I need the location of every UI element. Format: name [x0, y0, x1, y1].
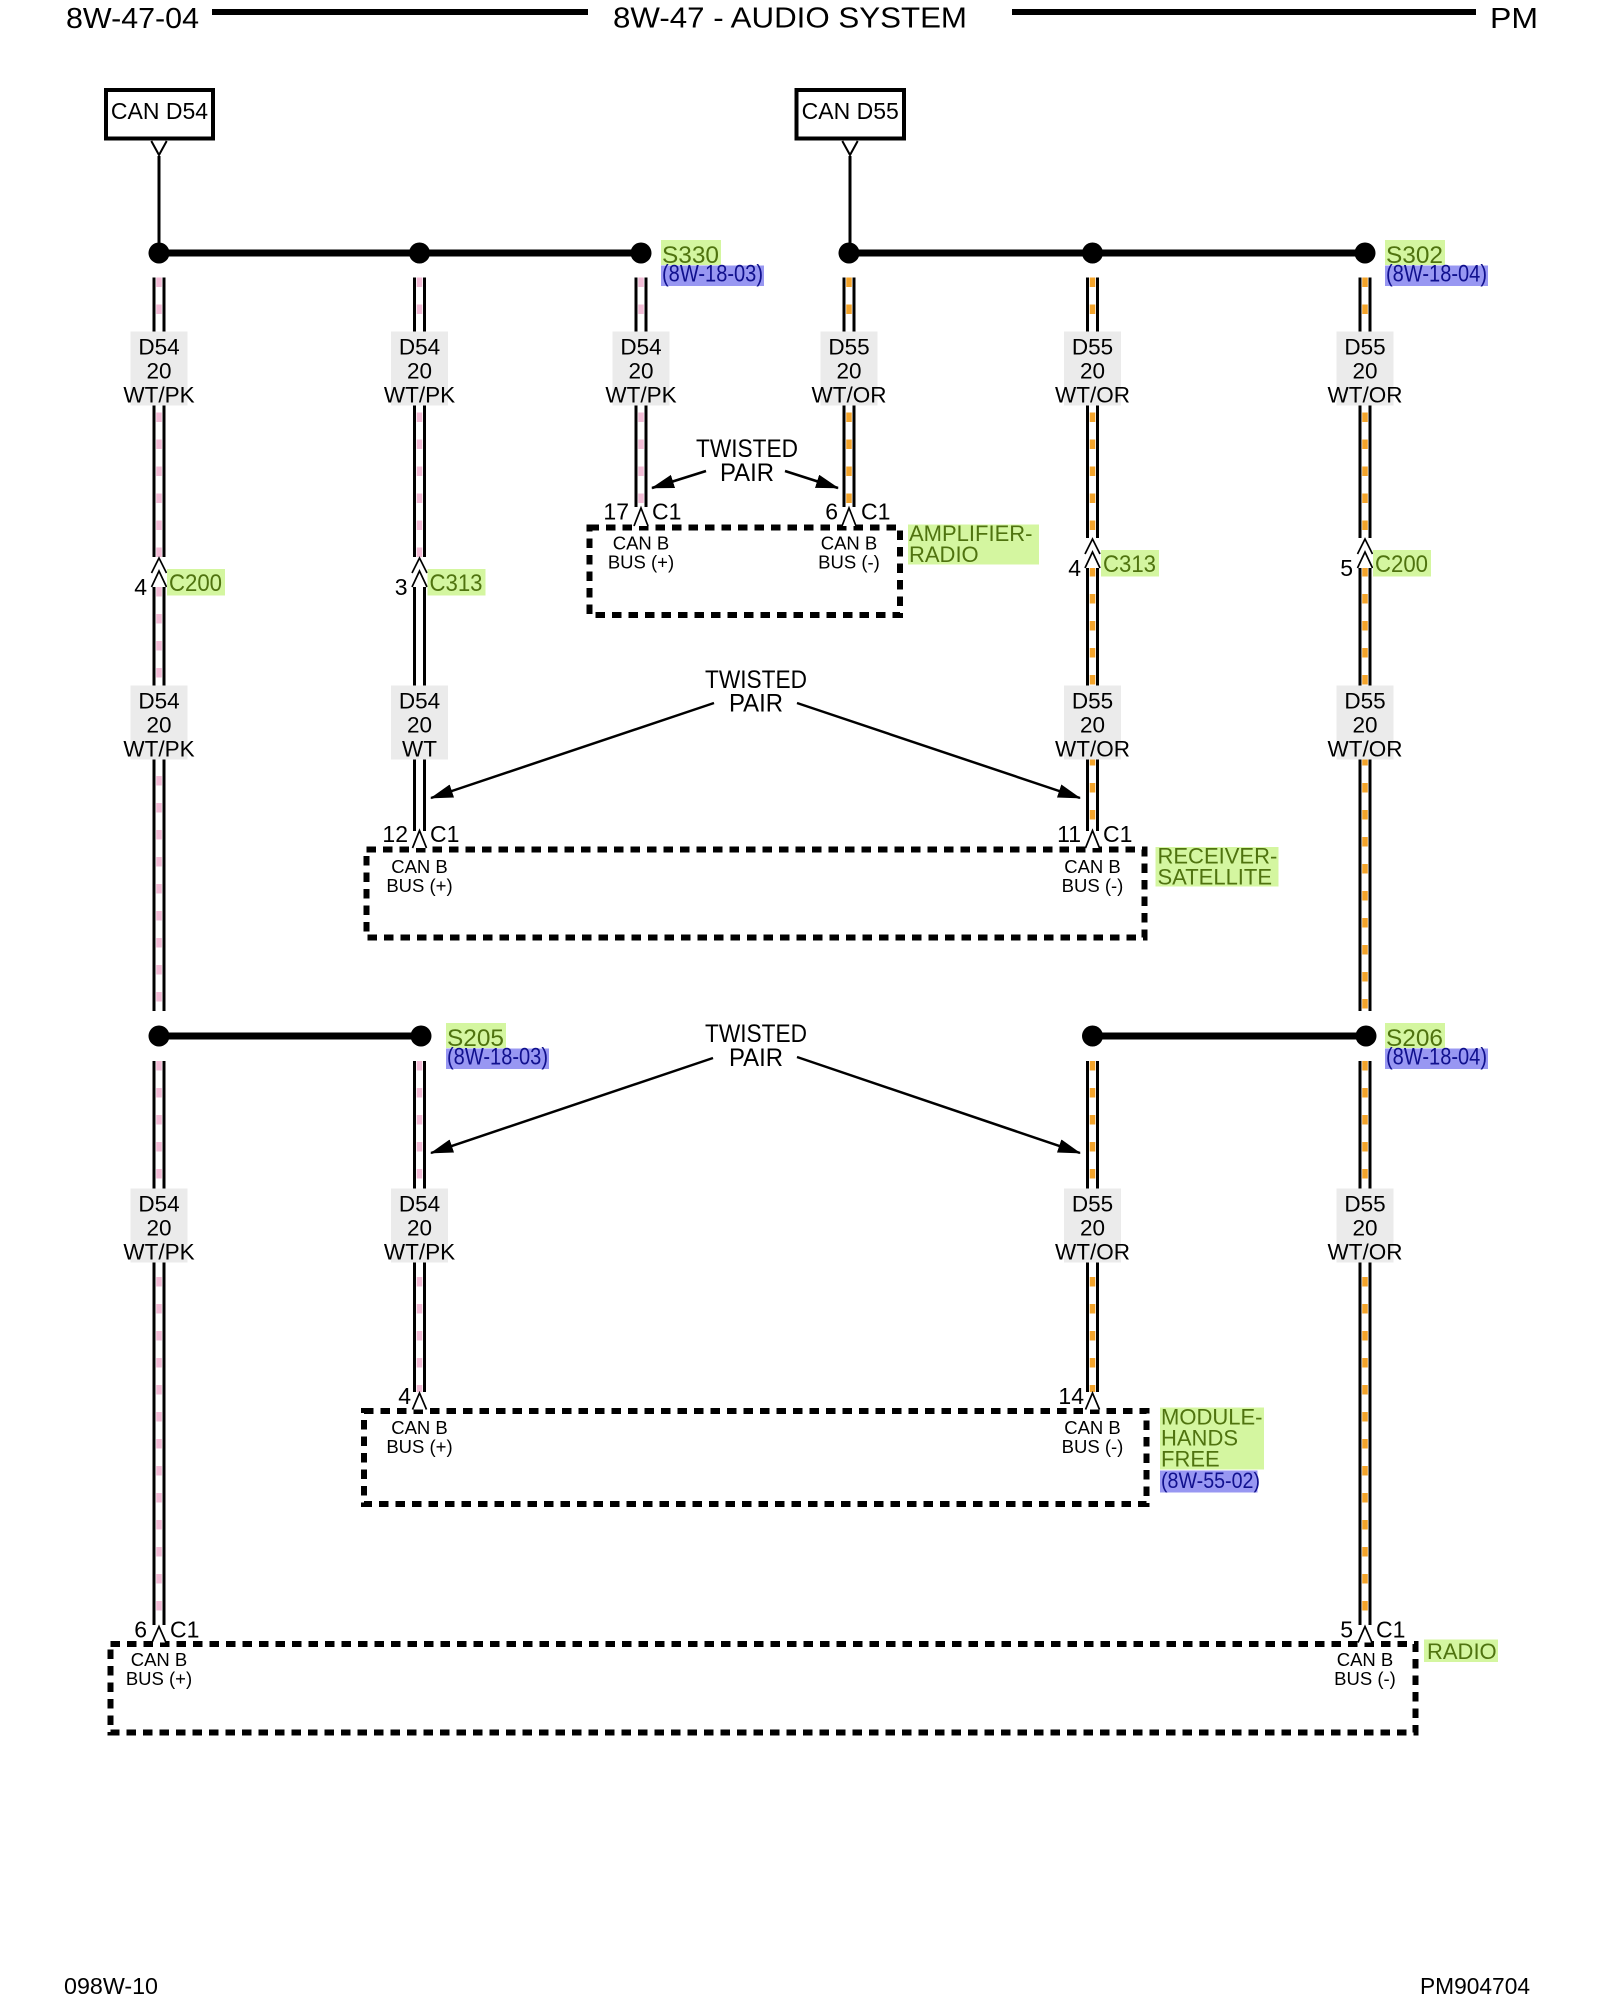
- svg-text:D54: D54: [138, 1192, 179, 1217]
- svg-text:WT/OR: WT/OR: [1055, 383, 1130, 408]
- svg-text:WT/PK: WT/PK: [384, 383, 455, 408]
- wire D54 20 WT col2 from C313 to RECEIVER pin 12: [413, 587, 426, 831]
- header rule right: [1012, 9, 1476, 15]
- svg-text:4: 4: [134, 574, 147, 600]
- svg-text:D55: D55: [1072, 335, 1113, 360]
- svg-text:BUS (+): BUS (+): [386, 1436, 452, 1457]
- header rule left: [212, 9, 588, 15]
- wire label D55 20 WT/OR col5 row1: [1055, 332, 1130, 408]
- wire label D55 20 WT/OR col6 row3: [1328, 1189, 1403, 1265]
- svg-text:C1: C1: [430, 821, 459, 847]
- svg-text:PM: PM: [1490, 3, 1538, 35]
- lead wire CAN D55 to splice S302: [849, 156, 852, 253]
- wire D54 20 WT/PK col2 from S330 to C313: [413, 278, 426, 558]
- svg-text:098W-10: 098W-10: [64, 1973, 158, 1999]
- component box MODULE-HANDS FREE: [364, 1411, 1147, 1504]
- svg-text:C1: C1: [652, 499, 681, 525]
- svg-text:20: 20: [1080, 713, 1105, 738]
- svg-text:D55: D55: [1072, 1192, 1113, 1217]
- note TWISTED PAIR top: [696, 435, 798, 487]
- svg-text:(8W-18-03): (8W-18-03): [662, 261, 763, 288]
- wire D55 20 WT/OR col5 from S206 to MODULE pin 14: [1086, 1061, 1099, 1392]
- svg-text:WT/OR: WT/OR: [1055, 737, 1130, 762]
- svg-text:RADIO: RADIO: [909, 542, 979, 567]
- wire label D55 20 WT/OR col4 row1: [812, 332, 887, 408]
- wire label D55 20 WT/OR col6 row2: [1328, 686, 1403, 762]
- svg-text:WT/PK: WT/PK: [123, 383, 194, 408]
- pin name CAN B BUS (-) receiver: [1062, 856, 1124, 896]
- footer part number PM904704: [1420, 1973, 1530, 1999]
- svg-text:WT/OR: WT/OR: [1328, 1240, 1403, 1265]
- svg-text:17: 17: [603, 499, 629, 525]
- svg-text:BUS (+): BUS (+): [126, 1668, 192, 1689]
- svg-text:12: 12: [382, 821, 408, 847]
- svg-text:CAN B: CAN B: [391, 1417, 448, 1438]
- svg-text:WT/OR: WT/OR: [812, 383, 887, 408]
- wire D54 20 WT/PK col1 from C200 to S205: [153, 587, 166, 1011]
- header page code PM: [1490, 3, 1538, 35]
- svg-text:PM904704: PM904704: [1420, 1973, 1530, 1999]
- component reference (8W-55-02) for MODULE-HANDS FREE: [1160, 1468, 1260, 1493]
- wire D54 20 WT/PK col2 from S205 to MODULE pin 4: [413, 1061, 426, 1392]
- pin 14 on MODULE-HANDS FREE: [1058, 1383, 1099, 1410]
- svg-text:CAN B: CAN B: [821, 533, 878, 554]
- wire D55 20 WT/OR col5 from C313 to RECEIVER pin 11: [1086, 567, 1099, 831]
- svg-text:BUS (+): BUS (+): [608, 552, 674, 573]
- svg-text:D55: D55: [828, 335, 869, 360]
- svg-text:PAIR: PAIR: [720, 459, 774, 487]
- svg-text:D54: D54: [399, 335, 440, 360]
- svg-text:WT/OR: WT/OR: [1328, 383, 1403, 408]
- svg-text:C1: C1: [1103, 821, 1132, 847]
- wire label D54 20 WT/PK col1 row3: [123, 1189, 194, 1265]
- svg-text:PAIR: PAIR: [729, 690, 783, 718]
- svg-text:BUS (+): BUS (+): [386, 875, 452, 896]
- svg-text:20: 20: [1352, 359, 1377, 384]
- pin 17 C1 on AMPLIFIER-RADIO: [603, 499, 681, 527]
- wire label D54 20 WT/PK col2 row3: [384, 1189, 455, 1265]
- svg-text:(8W-18-03): (8W-18-03): [447, 1044, 548, 1071]
- junction node S330 at col1: [149, 243, 170, 264]
- svg-text:CAN B: CAN B: [391, 856, 448, 877]
- wire D55 20 WT/OR col6 from C200 to S206: [1359, 567, 1372, 1011]
- svg-text:6: 6: [134, 1617, 147, 1643]
- svg-text:14: 14: [1058, 1383, 1084, 1409]
- wire D55 20 WT/OR col6 from S206 to RADIO pin 5: [1359, 1061, 1372, 1625]
- svg-text:WT: WT: [402, 737, 437, 762]
- svg-text:20: 20: [407, 359, 432, 384]
- note TWISTED PAIR middle: [705, 666, 807, 718]
- junction node S302 at col4: [839, 243, 860, 264]
- splice label S330: [661, 240, 721, 269]
- svg-text:D54: D54: [399, 1192, 440, 1217]
- leader arrow to wire col3: [652, 471, 706, 488]
- svg-text:20: 20: [1352, 1216, 1377, 1241]
- svg-text:WT/PK: WT/PK: [384, 1240, 455, 1265]
- connector symbol V below CAN D54: [151, 141, 166, 155]
- svg-text:D54: D54: [138, 335, 179, 360]
- pin name CAN B BUS (+) receiver: [386, 856, 452, 896]
- splice reference (8W-18-04) for S302: [1385, 261, 1488, 288]
- svg-text:CAN B: CAN B: [1064, 1417, 1121, 1438]
- note TWISTED PAIR bottom: [705, 1020, 807, 1072]
- wire D55 20 WT/OR col4 from S302 to AMPLIFIER pin 6: [843, 278, 856, 508]
- svg-text:PAIR: PAIR: [729, 1044, 783, 1072]
- junction node S330 at col2: [409, 243, 430, 264]
- wire label D54 20 WT col2 row2: [391, 686, 448, 762]
- svg-text:CAN B: CAN B: [1337, 1649, 1394, 1670]
- junction node S205 at col2: [411, 1026, 432, 1047]
- component label RADIO: [1424, 1639, 1498, 1664]
- svg-text:5: 5: [1340, 1617, 1353, 1643]
- svg-text:20: 20: [407, 713, 432, 738]
- pin name CAN B BUS (+) module: [386, 1417, 452, 1457]
- splice bus S330: [159, 250, 641, 257]
- svg-text:20: 20: [407, 1216, 432, 1241]
- pin name CAN B BUS (-) module: [1062, 1417, 1124, 1457]
- svg-text:BUS (-): BUS (-): [1062, 875, 1124, 896]
- junction node S302 at col5: [1082, 243, 1103, 264]
- svg-text:CAN D55: CAN D55: [802, 98, 899, 124]
- svg-text:WT/OR: WT/OR: [1328, 737, 1403, 762]
- svg-text:(8W-55-02): (8W-55-02): [1161, 1468, 1260, 1493]
- splice reference (8W-18-03) for S205: [446, 1044, 549, 1071]
- component label RECEIVER-SATELLITE: [1156, 844, 1279, 890]
- wire label D55 20 WT/OR col5 row2: [1055, 686, 1130, 762]
- wire label D54 20 WT/PK col1 row1: [123, 332, 194, 408]
- wire D54 20 WT/PK col1 from S205 to RADIO pin 6: [153, 1061, 166, 1625]
- splice bus S206: [1093, 1033, 1367, 1040]
- wire label D55 20 WT/OR col6 row1: [1328, 332, 1403, 408]
- svg-text:C200: C200: [1375, 551, 1428, 578]
- leader arrow to wire col2 lower: [431, 1058, 713, 1153]
- svg-text:CAN B: CAN B: [613, 533, 670, 554]
- header page number 8W-47-04: [66, 3, 199, 35]
- svg-text:C200: C200: [169, 570, 222, 597]
- pin 11 C1 on RECEIVER-SATELLITE: [1057, 821, 1132, 848]
- svg-text:D55: D55: [1344, 689, 1385, 714]
- connector box CAN D55: [797, 90, 905, 139]
- wire D55 20 WT/OR col6 from S302 to C200: [1359, 278, 1372, 539]
- svg-text:D55: D55: [1072, 689, 1113, 714]
- junction node S330 at col3: [631, 243, 652, 264]
- component label AMPLIFIER-RADIO: [908, 521, 1039, 567]
- svg-text:WT/PK: WT/PK: [605, 383, 676, 408]
- wire D54 20 WT/PK col3 from S330 to AMPLIFIER pin 17: [635, 278, 648, 508]
- in-line connector C313 pin 4 col5: [1068, 538, 1159, 581]
- svg-text:WT/OR: WT/OR: [1055, 1240, 1130, 1265]
- pin 6 C1 on AMPLIFIER-RADIO: [825, 499, 890, 527]
- svg-text:20: 20: [146, 713, 171, 738]
- connector box CAN D54: [106, 90, 213, 139]
- svg-text:20: 20: [1080, 359, 1105, 384]
- component label MODULE-HANDS FREE: [1160, 1405, 1264, 1472]
- splice label S206: [1385, 1023, 1445, 1052]
- pin name CAN B BUS (+) amplifier: [608, 533, 674, 573]
- wire label D55 20 WT/OR col5 row3: [1055, 1189, 1130, 1265]
- svg-text:C313: C313: [1103, 551, 1156, 578]
- junction node S206 at col6: [1356, 1026, 1377, 1047]
- junction node S302 at col6: [1355, 243, 1376, 264]
- splice reference (8W-18-04) for S206: [1385, 1044, 1488, 1071]
- svg-text:BUS (-): BUS (-): [1334, 1668, 1396, 1689]
- splice bus S205: [159, 1033, 421, 1040]
- svg-text:C1: C1: [1376, 1617, 1405, 1643]
- svg-text:C1: C1: [861, 499, 890, 525]
- svg-text:CAN D54: CAN D54: [111, 98, 208, 124]
- svg-text:(8W-18-04): (8W-18-04): [1386, 1044, 1487, 1071]
- svg-text:D55: D55: [1344, 335, 1385, 360]
- svg-text:20: 20: [836, 359, 861, 384]
- splice reference (8W-18-03) for S330: [661, 261, 764, 288]
- svg-text:CAN B: CAN B: [1064, 856, 1121, 877]
- leader arrow to wire col2: [431, 703, 714, 798]
- footer sheet number 098W-10: [64, 1973, 158, 1999]
- wire D54 20 WT/PK col1 from S330 to C200: [153, 278, 166, 558]
- svg-text:(8W-18-04): (8W-18-04): [1386, 261, 1487, 288]
- splice label S205: [446, 1023, 506, 1052]
- svg-text:20: 20: [146, 1216, 171, 1241]
- svg-text:WT/PK: WT/PK: [123, 737, 194, 762]
- svg-text:D54: D54: [620, 335, 661, 360]
- leader arrow to wire col5: [797, 703, 1080, 798]
- connector symbol V below CAN D55: [842, 141, 857, 155]
- svg-text:4: 4: [398, 1383, 411, 1409]
- svg-text:8W-47-04: 8W-47-04: [66, 3, 199, 35]
- lead wire CAN D54 to splice S330: [158, 156, 161, 253]
- pin 12 C1 on RECEIVER-SATELLITE: [382, 821, 459, 848]
- leader arrow to wire col4: [785, 471, 838, 488]
- leader arrow to wire col5 lower: [797, 1057, 1080, 1153]
- pin 6 C1 on RADIO: [134, 1617, 199, 1643]
- svg-text:D55: D55: [1344, 1192, 1385, 1217]
- svg-text:C313: C313: [430, 570, 483, 597]
- header title 8W-47 - AUDIO SYSTEM: [613, 3, 967, 35]
- component box RADIO: [111, 1644, 1416, 1733]
- svg-text:D54: D54: [399, 689, 440, 714]
- pin 4 on MODULE-HANDS FREE: [398, 1383, 426, 1410]
- in-line connector C200 pin 5 col6: [1340, 538, 1431, 581]
- svg-text:BUS (-): BUS (-): [818, 552, 880, 573]
- svg-text:SATELLITE: SATELLITE: [1158, 865, 1273, 890]
- svg-text:WT/PK: WT/PK: [123, 1240, 194, 1265]
- splice bus S302: [849, 250, 1365, 257]
- junction node S205 at col1: [149, 1026, 170, 1047]
- junction node S206 at col5: [1082, 1026, 1103, 1047]
- svg-text:20: 20: [628, 359, 653, 384]
- pin name CAN B BUS (-) amplifier: [818, 533, 880, 573]
- component box RECEIVER-SATELLITE: [367, 850, 1145, 938]
- wire label D54 20 WT/PK col3 row1: [605, 332, 676, 408]
- splice label S302: [1385, 240, 1445, 269]
- pin name CAN B BUS (+) radio: [126, 1649, 192, 1689]
- svg-text:20: 20: [146, 359, 171, 384]
- svg-text:CAN B: CAN B: [131, 1649, 188, 1670]
- wire D55 20 WT/OR col5 from S302 to C313: [1086, 278, 1099, 539]
- svg-text:20: 20: [1080, 1216, 1105, 1241]
- svg-text:D54: D54: [138, 689, 179, 714]
- svg-text:4: 4: [1068, 555, 1081, 581]
- component box AMPLIFIER-RADIO: [590, 528, 901, 616]
- wire label D54 20 WT/PK col2 row1: [384, 332, 455, 408]
- svg-text:BUS (-): BUS (-): [1062, 1436, 1124, 1457]
- svg-text:6: 6: [825, 499, 838, 525]
- svg-text:20: 20: [1352, 713, 1377, 738]
- in-line connector C200 pin 4 col1: [134, 557, 225, 600]
- pin 5 C1 on RADIO: [1340, 1617, 1405, 1643]
- svg-text:C1: C1: [170, 1617, 199, 1643]
- in-line connector C313 pin 3 col2: [395, 557, 486, 600]
- svg-text:11: 11: [1057, 821, 1081, 847]
- wire label D54 20 WT/PK col1 row2: [123, 686, 194, 762]
- pin name CAN B BUS (-) radio: [1334, 1649, 1396, 1689]
- svg-text:3: 3: [395, 574, 408, 600]
- svg-text:8W-47 - AUDIO SYSTEM: 8W-47 - AUDIO SYSTEM: [613, 3, 967, 35]
- svg-text:5: 5: [1340, 555, 1353, 581]
- svg-text:RADIO: RADIO: [1427, 1639, 1497, 1664]
